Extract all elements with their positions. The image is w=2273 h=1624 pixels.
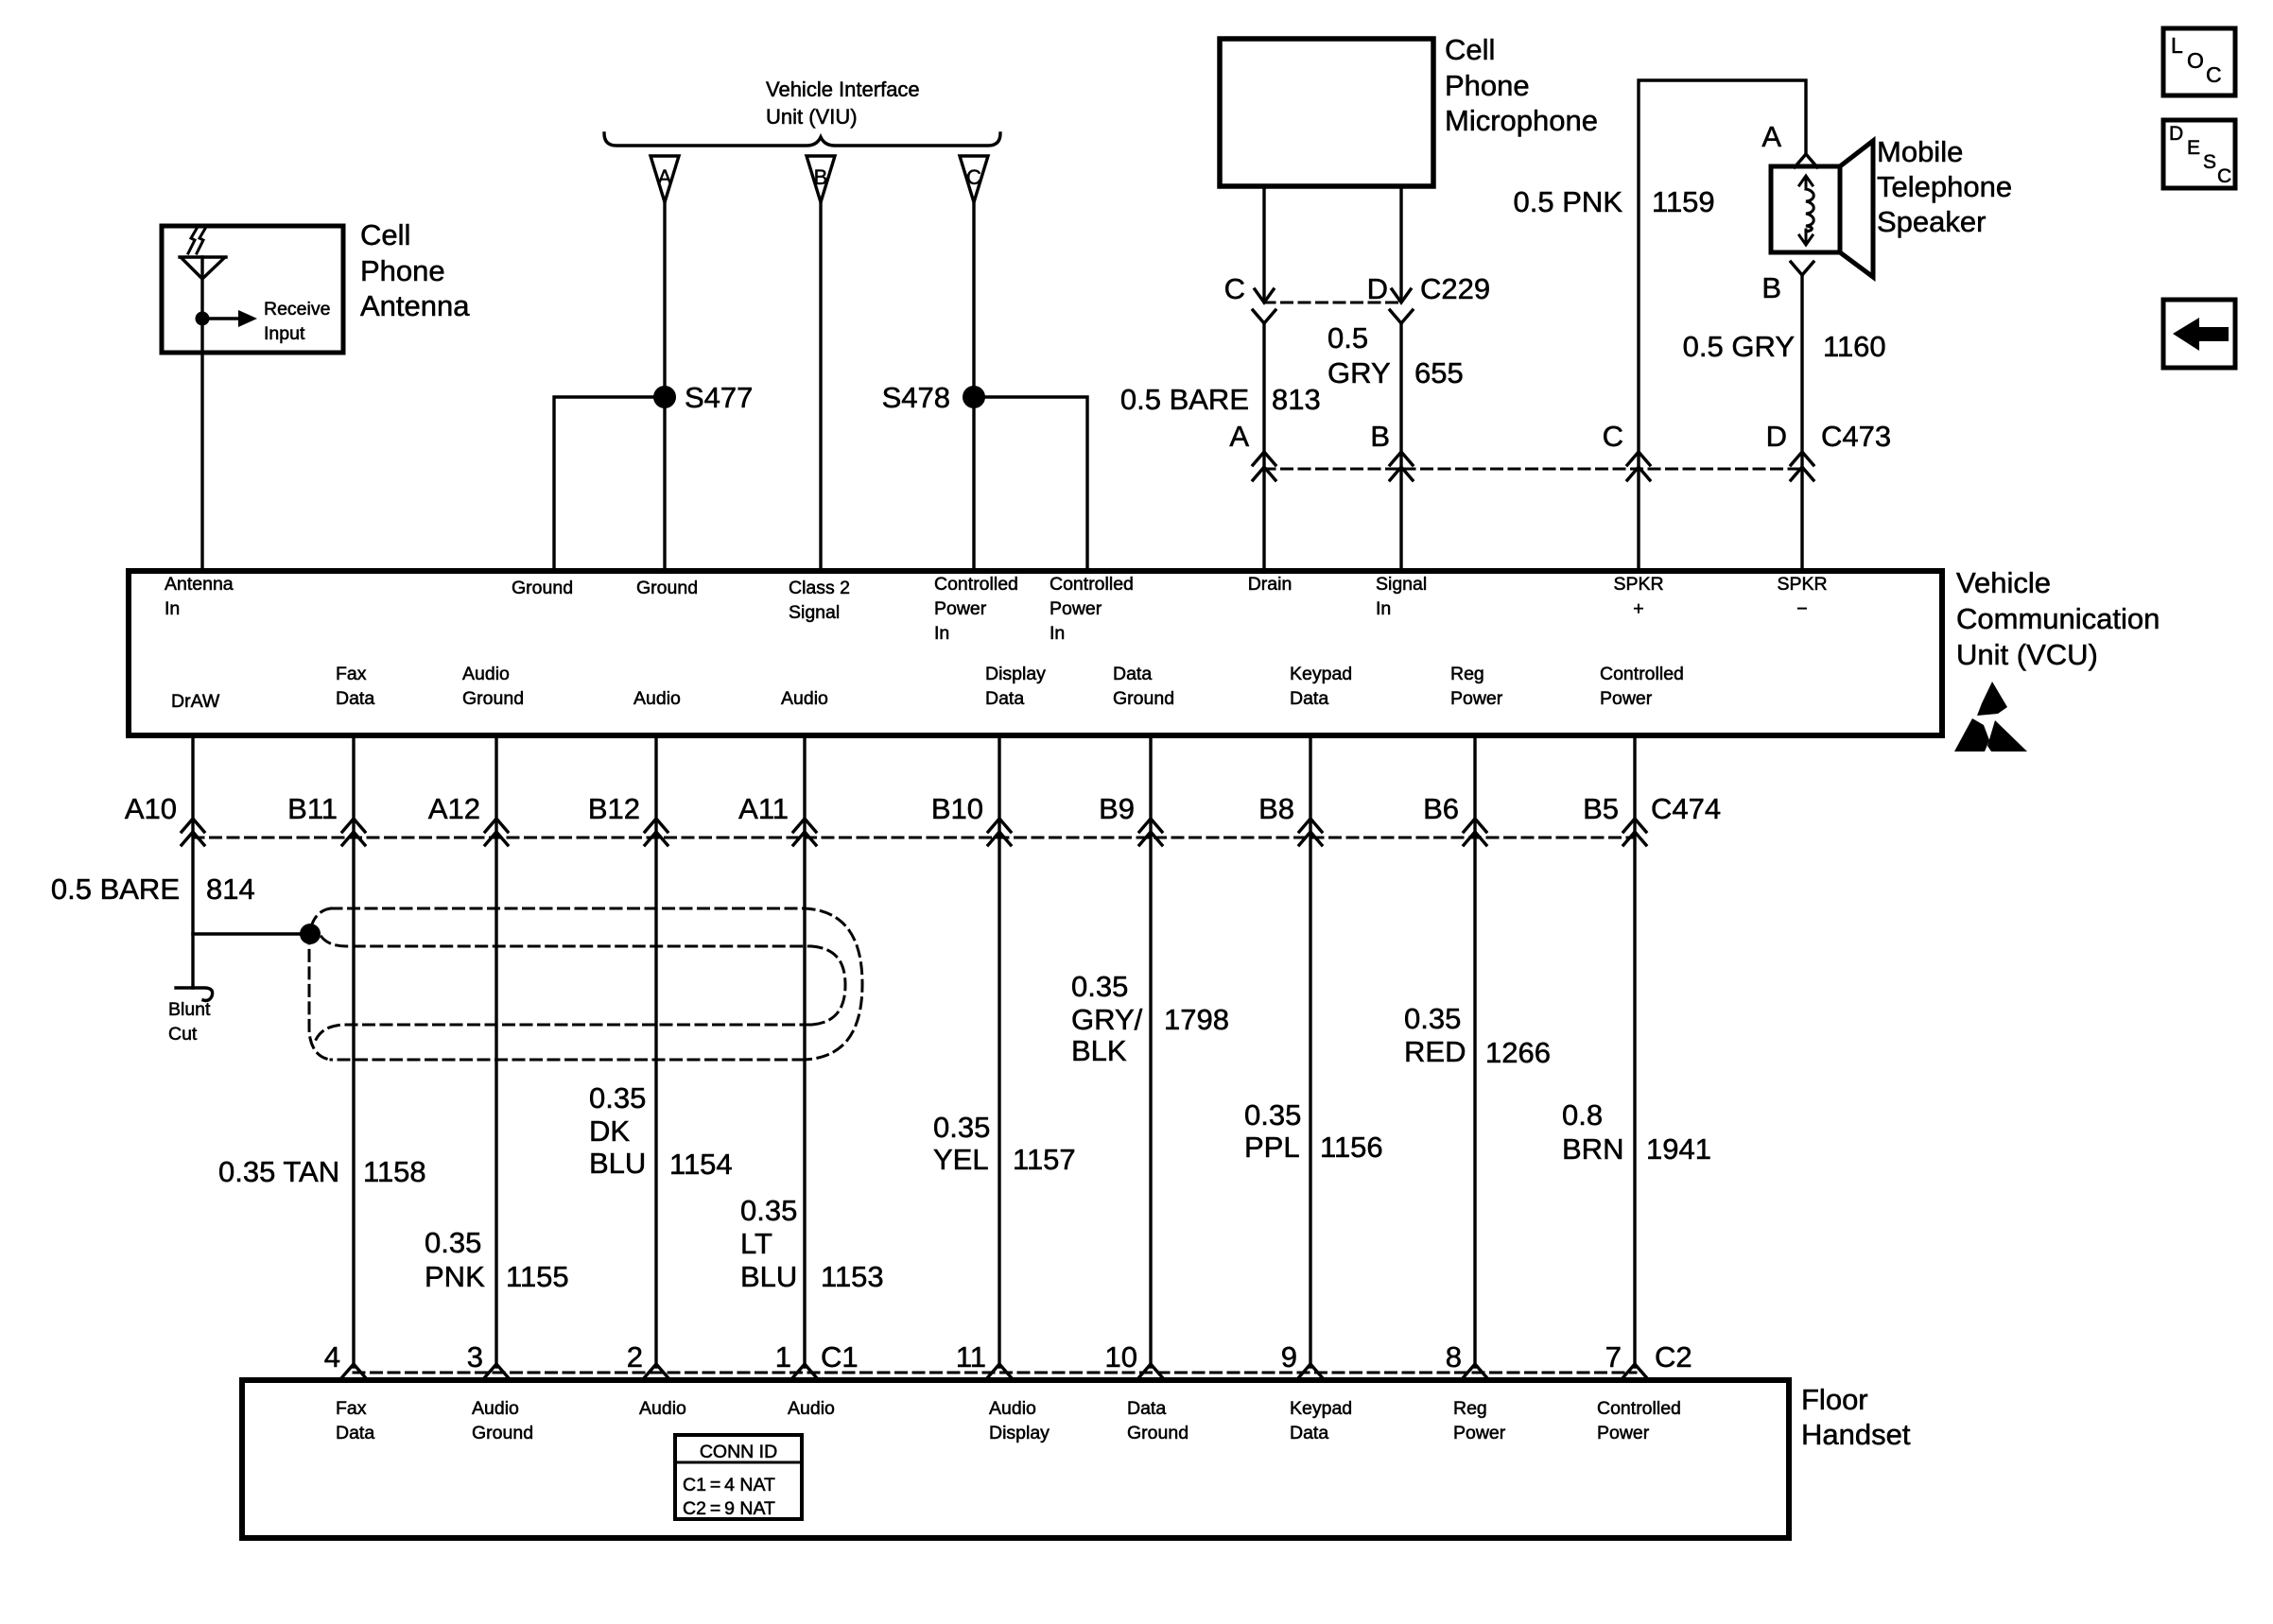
wire: spkr- 0.5 GRY (speaker B to VCU)	[1800, 275, 1803, 568]
label 0.35 TAN 1158	[218, 1155, 426, 1188]
svg-text:Data: Data	[1113, 664, 1152, 684]
svg-text:BRN: BRN	[1562, 1132, 1623, 1166]
svg-text:C: C	[2217, 165, 2231, 187]
svg-text:Data: Data	[1290, 688, 1328, 709]
pin label Audio Ground	[462, 664, 524, 709]
svg-text:B6: B6	[1423, 792, 1459, 825]
svg-text:Floor: Floor	[1801, 1383, 1868, 1416]
svg-text:A12: A12	[428, 792, 480, 825]
svg-text:Class 2: Class 2	[789, 578, 850, 598]
svg-text:PPL: PPL	[1244, 1131, 1300, 1164]
handset connector dashed line	[354, 1372, 1636, 1374]
svg-text:0.35 TAN: 0.35 TAN	[218, 1155, 339, 1188]
svg-text:Controlled: Controlled	[1050, 574, 1134, 595]
wire: fax data 1158	[352, 738, 355, 1367]
wire: S478 branch to controlled power in 2	[974, 397, 1087, 568]
wire: class 2 signal (triangle B to VCU)	[819, 202, 822, 568]
svg-text:0.35: 0.35	[1071, 970, 1128, 1003]
svg-text:1: 1	[775, 1340, 791, 1373]
svg-text:1153: 1153	[821, 1260, 884, 1293]
svg-text:B12: B12	[588, 792, 640, 825]
pin label Controlled Power	[1600, 664, 1684, 709]
pin label Antenna In	[165, 574, 234, 619]
pin label Keypad Data	[1290, 664, 1352, 709]
svg-text:C473: C473	[1821, 420, 1891, 453]
svg-text:RED: RED	[1404, 1035, 1466, 1068]
brace VIU	[604, 133, 1000, 146]
svg-text:SPKR: SPKR	[1777, 574, 1827, 595]
svg-text:814: 814	[206, 872, 255, 906]
svg-text:BLU: BLU	[740, 1260, 797, 1293]
svg-text:11: 11	[956, 1340, 986, 1373]
svg-text:Cell: Cell	[360, 218, 410, 251]
svg-text:1157: 1157	[1013, 1143, 1076, 1176]
svg-text:0.35: 0.35	[1404, 1002, 1461, 1035]
handset pin label Audio Display	[989, 1398, 1050, 1443]
svg-text:Audio: Audio	[639, 1398, 686, 1419]
svg-text:C1: C1	[821, 1340, 859, 1373]
svg-text:Power: Power	[1597, 1423, 1650, 1443]
svg-text:Ground: Ground	[462, 688, 524, 709]
svg-text:Phone: Phone	[360, 254, 445, 287]
svg-text:Data: Data	[1290, 1423, 1328, 1443]
svg-text:B8: B8	[1258, 792, 1294, 825]
wire: audio 1153	[803, 738, 806, 1367]
handset pin label Data Ground	[1127, 1398, 1189, 1443]
svg-text:Power: Power	[1450, 688, 1503, 709]
wire: shield tap to splice	[193, 932, 310, 935]
svg-text:C: C	[1603, 420, 1623, 453]
svg-text:0.5 PNK: 0.5 PNK	[1514, 185, 1623, 218]
svg-text:B10: B10	[931, 792, 983, 825]
ESD symbol	[1954, 682, 2027, 752]
svg-text:Power: Power	[1050, 598, 1102, 619]
connector triangle C	[960, 156, 988, 202]
label Blunt Cut	[168, 999, 211, 1045]
svg-text:Audio: Audio	[633, 688, 681, 709]
connector triangle B	[807, 156, 835, 202]
svg-text:Controlled: Controlled	[934, 574, 1018, 595]
svg-text:Ground: Ground	[512, 578, 573, 598]
svg-text:Power: Power	[1453, 1423, 1506, 1443]
svg-text:0.5: 0.5	[1327, 321, 1368, 354]
svg-text:1154: 1154	[669, 1148, 733, 1181]
svg-text:1156: 1156	[1320, 1131, 1383, 1164]
svg-text:Signal: Signal	[1376, 574, 1427, 595]
wire: ground 2 (triangle A to VCU)	[663, 202, 666, 568]
pin label Data Ground	[1113, 664, 1174, 709]
svg-text:0.8: 0.8	[1562, 1098, 1603, 1132]
label Mobile Telephone Speaker	[1877, 135, 2012, 238]
label 0.35 RED 1266	[1404, 1002, 1551, 1069]
wire: mic drain upper (pin C)	[1262, 186, 1265, 301]
svg-text:O: O	[2187, 48, 2204, 73]
wire: audio 1154	[654, 738, 657, 1367]
svg-text:DK: DK	[589, 1114, 630, 1148]
svg-text:Power: Power	[1600, 688, 1653, 709]
back arrow box	[2163, 300, 2235, 368]
splice: shield junction	[300, 924, 321, 944]
svg-text:Audio: Audio	[472, 1398, 519, 1419]
wire: spkr+ 0.5 PNK (speaker A to VCU)	[1639, 80, 1806, 568]
pin label Fax Data	[336, 664, 374, 709]
pin label Signal In	[1376, 574, 1427, 619]
pin label Controlled Power In (2)	[1050, 574, 1134, 644]
wire: keypad data 1156	[1309, 738, 1311, 1367]
svg-text:Ground: Ground	[472, 1423, 533, 1443]
svg-text:Input: Input	[264, 323, 305, 344]
svg-text:D: D	[1367, 272, 1388, 305]
svg-text:Audio: Audio	[462, 664, 510, 684]
svg-text:Communication: Communication	[1956, 602, 2160, 635]
label 0.5 PNK 1159	[1514, 185, 1715, 218]
label 0.5 BARE 814	[51, 872, 255, 906]
svg-text:S: S	[2203, 151, 2216, 173]
svg-text:Audio: Audio	[989, 1398, 1036, 1419]
svg-text:Audio: Audio	[781, 688, 828, 709]
svg-text:B: B	[1370, 420, 1390, 453]
svg-text:PNK: PNK	[425, 1260, 485, 1293]
svg-text:Ground: Ground	[1113, 688, 1174, 709]
svg-text:Display: Display	[989, 1423, 1050, 1443]
label 0.5 BARE 813	[1120, 383, 1321, 416]
label 0.8 BRN 1941	[1562, 1098, 1711, 1166]
svg-text:GRY/: GRY/	[1071, 1003, 1143, 1036]
label C / D / C229	[1224, 272, 1491, 305]
label Cell Phone Microphone	[1445, 33, 1598, 137]
svg-text:7: 7	[1605, 1340, 1622, 1373]
label 0.5 GRY 1160	[1683, 330, 1886, 363]
handset pin label Fax Data	[336, 1398, 374, 1443]
svg-text:B: B	[1761, 271, 1781, 304]
svg-text:9: 9	[1281, 1340, 1297, 1373]
label 0.35 PNK 1155	[425, 1226, 569, 1293]
svg-text:1941: 1941	[1646, 1132, 1711, 1166]
svg-text:E: E	[2187, 137, 2200, 159]
labels A B C D C473	[1229, 420, 1891, 453]
svg-text:B11: B11	[287, 792, 338, 825]
svg-text:A: A	[1229, 420, 1249, 453]
svg-text:655: 655	[1414, 356, 1464, 389]
label Cell Phone Antenna	[360, 218, 470, 322]
svg-text:B: B	[814, 165, 828, 189]
wire: DrAW / shield 814	[191, 738, 194, 988]
label 0.35 YEL 1157	[933, 1111, 1076, 1176]
svg-text:A10: A10	[125, 792, 177, 825]
svg-text:813: 813	[1272, 383, 1321, 416]
svg-text:A11: A11	[738, 792, 789, 825]
splice S477	[653, 381, 753, 414]
svg-text:BLU: BLU	[589, 1147, 646, 1180]
wire: S477 branch to ground 1	[554, 397, 665, 568]
svg-text:Reg: Reg	[1450, 664, 1484, 684]
connector C474 dashed line	[193, 837, 1635, 839]
svg-text:Data: Data	[1127, 1398, 1166, 1419]
label 0.35 GRY/BLK 1798	[1071, 970, 1229, 1067]
svg-text:0.35: 0.35	[740, 1194, 797, 1227]
svg-text:GRY: GRY	[1327, 356, 1391, 389]
wire: reg power 1266	[1473, 738, 1476, 1367]
svg-text:In: In	[934, 623, 949, 644]
svg-text:0.35: 0.35	[589, 1081, 646, 1114]
connector triangle A	[651, 156, 679, 202]
svg-text:C: C	[1224, 272, 1245, 305]
svg-text:C2 = 9 NAT: C2 = 9 NAT	[683, 1498, 775, 1519]
svg-text:3: 3	[467, 1340, 483, 1373]
svg-text:Keypad: Keypad	[1290, 1398, 1352, 1419]
svg-text:1160: 1160	[1823, 330, 1886, 363]
svg-text:Fax: Fax	[336, 664, 367, 684]
svg-text:10: 10	[1105, 1340, 1137, 1373]
svg-text:Data: Data	[336, 688, 374, 709]
wire: audio ground 1155	[495, 738, 497, 1367]
svg-text:Fax: Fax	[336, 1398, 367, 1419]
svg-text:LT: LT	[740, 1227, 772, 1260]
svg-text:−: −	[1796, 598, 1807, 619]
svg-text:A: A	[658, 165, 672, 189]
wire: antenna in (box to VCU)	[200, 353, 203, 568]
wire: data ground 1798	[1149, 738, 1152, 1367]
wire: audio display 1157	[998, 738, 1000, 1367]
svg-text:Cut: Cut	[168, 1024, 198, 1045]
speaker B chevron	[1791, 262, 1813, 275]
connector C229 arrows	[1253, 289, 1413, 323]
svg-text:0.5 BARE: 0.5 BARE	[51, 872, 180, 906]
pin label Reg Power	[1450, 664, 1503, 709]
label Floor Handset	[1801, 1383, 1911, 1451]
svg-text:Handset: Handset	[1801, 1418, 1911, 1451]
svg-text:S478: S478	[882, 381, 950, 414]
wire: signal in lower (C229 to VCU)	[1399, 323, 1402, 568]
svg-text:Antenna: Antenna	[360, 289, 470, 322]
handset pin label Keypad Data	[1290, 1398, 1352, 1443]
label Vehicle Communication Unit (VCU)	[1956, 566, 2160, 671]
svg-text:Antenna: Antenna	[165, 574, 234, 595]
pin label Display Data	[985, 664, 1046, 709]
svg-text:Phone: Phone	[1445, 69, 1530, 102]
svg-text:0.35: 0.35	[933, 1111, 990, 1144]
svg-text:C474: C474	[1651, 792, 1721, 825]
connector C474 chevrons	[182, 819, 1646, 845]
svg-text:Ground: Ground	[636, 578, 698, 598]
svg-text:Drain: Drain	[1248, 574, 1293, 595]
svg-text:Power: Power	[934, 598, 987, 619]
pin numbers 4..7 C1 C2	[324, 1340, 1692, 1373]
node: receive input tap	[196, 310, 258, 327]
handset pin label Controlled Power	[1597, 1398, 1681, 1443]
label Receive Input	[264, 299, 330, 344]
handset pin label Audio Ground	[472, 1398, 533, 1443]
svg-text:Unit (VIU): Unit (VIU)	[766, 105, 858, 129]
pin label SPKR +	[1613, 574, 1663, 619]
svg-text:Reg: Reg	[1453, 1398, 1487, 1419]
svg-text:B5: B5	[1583, 792, 1619, 825]
cell phone antenna box	[162, 226, 343, 353]
label 0.35 LT BLU 1153	[740, 1194, 884, 1293]
handset pin label Reg Power	[1453, 1398, 1506, 1443]
connector C229 dashed line	[1264, 302, 1401, 304]
svg-text:CONN ID: CONN ID	[700, 1442, 777, 1462]
svg-text:B9: B9	[1099, 792, 1135, 825]
connector C473 dashed line	[1264, 468, 1802, 471]
svg-text:L: L	[2171, 33, 2183, 58]
svg-text:2: 2	[627, 1340, 643, 1373]
floor handset box	[242, 1380, 1789, 1538]
svg-text:Blunt: Blunt	[168, 999, 211, 1020]
mobile telephone speaker	[1771, 141, 1873, 277]
svg-text:Controlled: Controlled	[1600, 664, 1684, 684]
svg-text:Microphone: Microphone	[1445, 104, 1598, 137]
labels A10..B5 C474	[125, 792, 1721, 825]
svg-text:C1 = 4 NAT: C1 = 4 NAT	[683, 1475, 775, 1495]
svg-text:0.35: 0.35	[425, 1226, 481, 1259]
svg-text:1155: 1155	[506, 1260, 569, 1293]
DESC box	[2163, 120, 2235, 188]
label 0.35 PPL 1156	[1244, 1098, 1383, 1164]
pin label Controlled Power In (1)	[934, 574, 1018, 644]
svg-text:Ground: Ground	[1127, 1423, 1189, 1443]
svg-text:1158: 1158	[363, 1155, 426, 1188]
svg-text:1798: 1798	[1164, 1003, 1229, 1036]
wire: mic signal upper (pin D)	[1399, 186, 1402, 301]
label Vehicle Interface Unit (VIU)	[766, 78, 920, 129]
vehicle communication unit (VCU) box	[129, 571, 1942, 735]
pin label SPKR -	[1777, 574, 1827, 619]
svg-text:In: In	[165, 598, 180, 619]
svg-text:0.35: 0.35	[1244, 1098, 1301, 1132]
svg-text:C: C	[966, 165, 981, 189]
pin label Class 2 Signal	[789, 578, 850, 623]
wire: controlled power in 1 (triangle C to VCU)	[972, 202, 975, 568]
svg-text:YEL: YEL	[933, 1143, 989, 1176]
svg-text:8: 8	[1446, 1340, 1462, 1373]
CONN ID table	[675, 1435, 802, 1519]
svg-text:Controlled: Controlled	[1597, 1398, 1681, 1419]
svg-text:Data: Data	[336, 1423, 374, 1443]
svg-text:A: A	[1761, 120, 1781, 153]
svg-text:DrAW: DrAW	[171, 691, 220, 712]
LOC box	[2163, 28, 2235, 95]
svg-text:BLK: BLK	[1071, 1034, 1127, 1067]
svg-text:Audio: Audio	[788, 1398, 835, 1419]
label 0.35 DK BLU 1154	[589, 1081, 733, 1181]
svg-text:C229: C229	[1420, 272, 1490, 305]
svg-text:0.5 BARE: 0.5 BARE	[1120, 383, 1249, 416]
svg-text:Mobile: Mobile	[1877, 135, 1963, 168]
antenna symbol	[180, 227, 226, 353]
svg-text:C: C	[2206, 62, 2222, 87]
svg-text:SPKR: SPKR	[1613, 574, 1663, 595]
svg-text:In: In	[1376, 598, 1391, 619]
blunt cut terminal	[176, 988, 213, 1001]
svg-text:Signal: Signal	[789, 602, 840, 623]
label 0.5 GRY 655	[1327, 321, 1464, 389]
handset connector chevrons	[341, 1364, 1647, 1378]
svg-text:4: 4	[324, 1340, 340, 1373]
svg-text:Data: Data	[985, 688, 1024, 709]
cell phone microphone box	[1220, 39, 1433, 186]
splice S478	[882, 381, 985, 414]
svg-text:Display: Display	[985, 664, 1046, 684]
svg-text:Keypad: Keypad	[1290, 664, 1352, 684]
shield oval (dashed)	[309, 908, 862, 1060]
svg-text:D: D	[1766, 420, 1787, 453]
svg-text:C2: C2	[1655, 1340, 1692, 1373]
svg-text:1159: 1159	[1652, 185, 1715, 218]
svg-text:0.5 GRY: 0.5 GRY	[1683, 330, 1795, 363]
svg-text:Telephone: Telephone	[1877, 170, 2012, 203]
svg-text:Receive: Receive	[264, 299, 330, 320]
svg-text:1266: 1266	[1485, 1036, 1551, 1069]
svg-text:Vehicle Interface: Vehicle Interface	[766, 78, 920, 101]
wire: drain lower (C229 to VCU)	[1262, 323, 1265, 568]
connector C473 chevrons	[1253, 452, 1813, 480]
svg-text:D: D	[2169, 123, 2183, 145]
speaker A chevron	[1795, 154, 1817, 167]
svg-text:Speaker: Speaker	[1877, 205, 1986, 238]
svg-text:Unit (VCU): Unit (VCU)	[1956, 638, 2098, 671]
svg-text:Cell: Cell	[1445, 33, 1495, 66]
svg-text:+: +	[1633, 598, 1643, 619]
svg-text:Vehicle: Vehicle	[1956, 566, 2051, 599]
svg-text:S477: S477	[685, 381, 753, 414]
wire: controlled power 1941	[1633, 738, 1636, 1367]
svg-text:In: In	[1050, 623, 1065, 644]
